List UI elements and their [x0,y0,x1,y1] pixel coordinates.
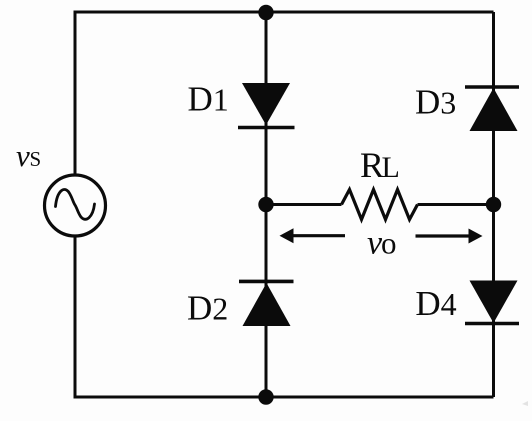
svg-text:D4: D4 [415,284,456,323]
svg-text:D1: D1 [188,80,229,119]
node middle-left junction [258,197,273,212]
wire middle horizontal right segment [418,203,494,206]
diode D2 triangle (pointing up) [243,283,291,326]
wire top horizontal [75,11,494,14]
resistor RL zigzag [342,190,418,220]
wire middle vertical [265,12,268,397]
svg-text:v: v [16,138,30,173]
diode D4 triangle (pointing down) [470,281,518,324]
wire left vertical lower [74,236,77,399]
diode D3 cathode bar [465,85,519,89]
diode D1 triangle (pointing down) [242,83,290,125]
svg-text:R: R [360,145,384,185]
diode D4 cathode bar [465,322,519,326]
node top junction [258,5,273,20]
svg-text:D3: D3 [415,83,456,122]
source VS sine wave [56,190,95,220]
svg-text:S: S [30,147,42,171]
svg-text:D2: D2 [187,289,228,328]
diode D1 cathode bar [238,126,295,130]
diode D2 cathode bar [239,280,294,284]
svg-text:L: L [382,151,400,184]
svg-text:o: o [381,226,397,261]
stray faint mark bottom-right (artifact in source) [522,401,528,406]
wire left vertical upper [74,11,77,176]
vo arrow left [280,228,346,243]
node bottom junction [258,389,273,404]
diode D3 triangle (pointing up) [470,88,518,131]
source VS circle [45,175,106,236]
vo arrow right [416,229,483,244]
wire middle horizontal left segment [266,203,342,206]
node middle-right junction [486,197,501,212]
wire right vertical [492,12,495,397]
wire bottom horizontal [75,396,494,399]
